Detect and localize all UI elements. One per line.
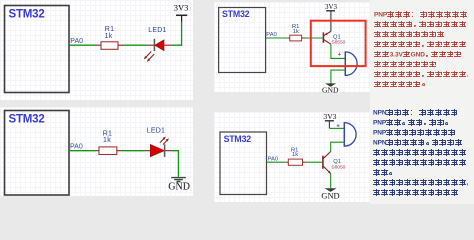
wire PA0 to R1 xyxy=(69,44,96,46)
label STM32 xyxy=(9,113,45,125)
annotation text line 8 xyxy=(374,81,428,87)
resistor R1 1k (bottom-right) xyxy=(286,147,306,165)
annotation text line 9 xyxy=(373,189,459,195)
svg-text:+: + xyxy=(338,52,342,58)
pin PA0 xyxy=(266,32,277,38)
red highlight rectangle xyxy=(311,21,366,66)
svg-text:STM32: STM32 xyxy=(224,134,252,144)
MCU box STM32 (bottom-right) xyxy=(220,132,267,195)
transistor Q1 S8550 (PNP) xyxy=(323,31,345,45)
wire LED1 to 3V3 xyxy=(172,22,182,45)
svg-text:GND: GND xyxy=(168,181,190,192)
annotation text line 2 xyxy=(374,21,467,27)
wire Q1 emitter to GND xyxy=(330,174,332,189)
svg-text:STM32: STM32 xyxy=(9,8,45,20)
annotation text line 7 xyxy=(374,71,469,77)
annotation text line 8 xyxy=(373,179,468,185)
svg-text:1k: 1k xyxy=(103,137,111,144)
svg-text:PA0: PA0 xyxy=(266,32,277,38)
annotation text line 1 xyxy=(374,11,468,17)
transistor Q1 S8050 (NPN) xyxy=(323,152,346,174)
svg-text:1k: 1k xyxy=(292,152,298,158)
annotation text line 7 xyxy=(373,169,395,175)
label STM32 xyxy=(224,134,252,144)
MCU box STM32 (bottom-left) xyxy=(5,111,70,196)
wire buzzer to GND xyxy=(331,70,345,83)
buzzer LS2 (bottom-right) xyxy=(336,122,356,147)
label STM32 xyxy=(9,8,45,20)
wire R1 to Q1 base xyxy=(305,37,323,39)
MCU box STM32 (top-left) xyxy=(5,6,70,93)
svg-text:STM32: STM32 xyxy=(222,9,250,19)
wire PA0 to R1 xyxy=(69,150,96,152)
svg-text:3V3: 3V3 xyxy=(174,3,189,13)
svg-text:3V3: 3V3 xyxy=(325,3,338,11)
wire Q1 collector to buzzer xyxy=(331,44,345,58)
pin PA0 xyxy=(70,38,83,45)
pin PA0 xyxy=(268,156,279,162)
buzzer LS1 (top-right) xyxy=(338,51,358,76)
wire PA0 to R1 xyxy=(267,161,286,163)
svg-text:S8050: S8050 xyxy=(331,164,345,170)
svg-text:1k: 1k xyxy=(293,29,299,35)
schematic panel top-left xyxy=(0,0,193,100)
schematic panel bottom-left xyxy=(0,107,193,196)
svg-text:GND: GND xyxy=(322,85,339,94)
annotation text line 1 xyxy=(373,109,458,115)
svg-text:1k: 1k xyxy=(105,33,113,40)
annotation text line 3 xyxy=(373,129,456,135)
label STM32 xyxy=(222,9,250,19)
annotation text line 3 xyxy=(374,31,445,37)
svg-text:LED1: LED1 xyxy=(148,27,166,34)
ground GND (bottom-right, arrow style) xyxy=(321,188,339,200)
annotation text line 6 xyxy=(374,61,437,67)
power 3V3 (top-right) xyxy=(325,3,338,11)
wire 3V3 to Q1 emitter xyxy=(330,11,332,32)
svg-text:Q1: Q1 xyxy=(333,34,341,40)
ground GND (top-right, arrow style) xyxy=(322,83,339,94)
svg-text:S8550: S8550 xyxy=(331,40,345,46)
wire PA0 to R1 xyxy=(266,37,288,39)
resistor R1 1k (bottom-left) xyxy=(96,130,123,154)
annotation text line 4 xyxy=(373,139,463,145)
svg-text:GND: GND xyxy=(321,192,339,201)
svg-text:LED1: LED1 xyxy=(147,128,165,135)
wire 3V3 to buzzer xyxy=(329,127,344,129)
annotation text line 4 xyxy=(374,41,467,47)
annotation text line 6 xyxy=(373,159,467,165)
annotation text line 2 xyxy=(373,119,451,125)
wire R1 to LED1 xyxy=(122,150,145,152)
svg-text:PA0: PA0 xyxy=(70,38,83,45)
svg-text:Q1: Q1 xyxy=(333,159,341,165)
resistor R1 1k (top-right) xyxy=(287,24,305,41)
power 3V3 (top-left) xyxy=(174,3,189,22)
wire LED1 to GND xyxy=(172,151,178,177)
wire R1 to LED1 xyxy=(124,44,148,46)
power 3V3 (bottom-right) xyxy=(323,112,336,128)
LED LED1 (top-left, cathode left) xyxy=(144,27,172,62)
schematic panel bottom-right xyxy=(214,112,370,202)
svg-text:PA0: PA0 xyxy=(70,143,83,150)
svg-text:PA0: PA0 xyxy=(268,156,279,162)
MCU box STM32 (top-right) xyxy=(219,8,266,73)
svg-text:STM32: STM32 xyxy=(9,113,45,125)
schematic panel top-right xyxy=(214,2,370,92)
annotation text column background xyxy=(370,0,474,204)
wire R1 to Q1 base xyxy=(306,161,323,163)
ground GND (bottom-left, bar style) xyxy=(168,178,190,193)
resistor R1 1k (top-left) xyxy=(96,26,124,49)
LED LED1 (bottom-left, anode left) xyxy=(145,128,173,157)
wire buzzer to Q1 collector xyxy=(331,142,345,151)
annotation text line 5 xyxy=(373,149,467,155)
pin PA0 xyxy=(70,143,83,150)
svg-text:3V3: 3V3 xyxy=(323,112,336,121)
annotation text line 5 xyxy=(374,51,462,57)
